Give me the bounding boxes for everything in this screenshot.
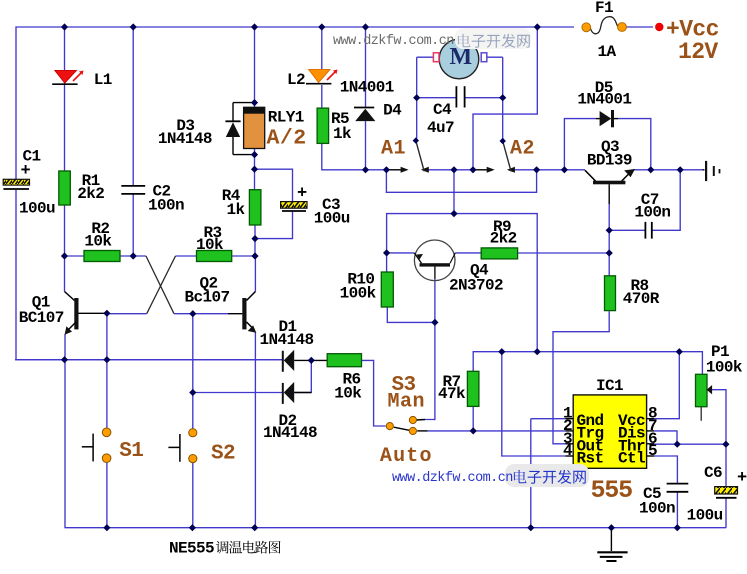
resistor R10 (381, 272, 393, 307)
wire Q3 base down (608, 184, 610, 204)
wire A2 fixed contact line (473, 169, 489, 171)
wire S3 arm (394, 427, 410, 430)
wire R6 right to S3 (362, 360, 386, 426)
wire motor left terminal column (416, 57, 418, 140)
capacitor C3 (281, 202, 307, 209)
svg-text:IC1: IC1 (596, 377, 623, 395)
wire Man stub (416, 419, 425, 422)
svg-text:BC107: BC107 (19, 309, 64, 327)
svg-text:100u: 100u (19, 200, 55, 218)
svg-text:470R: 470R (623, 290, 660, 308)
relay RLY1 (244, 107, 265, 148)
wire A2 top feed from +Vcc rail (473, 27, 537, 170)
svg-text:RLY1: RLY1 (268, 109, 304, 127)
transistor Q2 Bc107 (242, 298, 246, 329)
wire pin5 Ctl to C5 (654, 456, 677, 483)
wire pin6 Thr row (654, 443, 726, 445)
wire S2 column (192, 314, 194, 429)
switch A1 (401, 167, 409, 173)
svg-text:2k2: 2k2 (490, 230, 517, 248)
capacitor C4 (455, 86, 457, 107)
svg-text:1N4148: 1N4148 (158, 130, 212, 148)
resistor R2 (84, 251, 120, 262)
svg-text:10k: 10k (84, 233, 112, 251)
capacitor C2 (121, 185, 145, 187)
svg-text:C6: C6 (704, 464, 722, 482)
svg-text:100k: 100k (340, 285, 377, 303)
svg-text:+: + (21, 162, 31, 181)
resistor R1 (59, 171, 71, 205)
wire D5 loop (564, 119, 596, 170)
wire pin8 Vcc up (654, 352, 679, 419)
wire cross-couple diagonal to Q1 base (147, 256, 176, 314)
wire D2 row to S2 column (193, 392, 283, 394)
LED L1 (55, 71, 76, 84)
svg-text:1N4148: 1N4148 (260, 331, 314, 349)
wire C7 left (609, 229, 645, 231)
svg-text:2k2: 2k2 (77, 185, 104, 203)
switch S3 (386, 423, 393, 430)
svg-text:100n: 100n (639, 500, 675, 518)
wire D2 anode line (294, 392, 311, 394)
wire node relay-bottom to C3 top (255, 169, 293, 201)
svg-text:12V: 12V (678, 39, 718, 65)
svg-text:1N4001: 1N4001 (577, 91, 631, 109)
svg-text:4: 4 (563, 442, 573, 460)
capacitor C1 (3, 179, 29, 185)
svg-text:4u7: 4u7 (427, 119, 454, 137)
diode D2 (282, 383, 284, 404)
wire L2/R5 column (321, 27, 323, 70)
watermark top (455, 28, 531, 49)
wire row y213 (453, 170, 455, 214)
svg-text:S1: S1 (119, 440, 143, 463)
motor M (439, 39, 479, 79)
svg-text:A1: A1 (381, 138, 406, 161)
svg-text:100k: 100k (706, 359, 743, 377)
wire C5 bottom (676, 492, 678, 528)
wire Q4 emitter feed (387, 252, 415, 254)
svg-text:L1: L1 (94, 71, 112, 89)
capacitor C5 (667, 483, 689, 485)
wire D1/D2 junction vertical (294, 360, 311, 392)
wire A1 left contact line (386, 169, 401, 171)
wire motor right terminal column (487, 56, 503, 58)
node A1 arm pivot (413, 137, 419, 143)
pushbutton S2 (179, 434, 181, 462)
wire C2 column (132, 27, 134, 185)
svg-text:10k: 10k (334, 385, 362, 403)
svg-text:1k: 1k (333, 125, 352, 143)
wire D1 row left (15, 359, 283, 361)
wire +V row y351.7 (473, 352, 702, 375)
wire relay bottom to R4 (254, 148, 256, 190)
svg-text:Ctl: Ctl (618, 450, 645, 468)
wire R4 bottom (254, 225, 256, 256)
wire R10 bottom to Q4 collector (387, 307, 435, 322)
wire Q1 collector/emitter column (64, 256, 66, 292)
wire C4 right (465, 97, 503, 99)
ground bottom (597, 551, 627, 553)
capacitor C7 (644, 222, 646, 239)
switch A2 (487, 167, 495, 173)
diode D5 (600, 111, 612, 126)
wire R5 bottom to A1 row (322, 143, 387, 169)
svg-text:NE555: NE555 (169, 540, 214, 558)
wire Q3 emitter side to ground (633, 169, 703, 171)
wire R9 right to Q3 base column (518, 252, 610, 254)
resistor R4 (249, 190, 261, 225)
svg-text:Bc107: Bc107 (185, 289, 230, 307)
wire Q3 base to R8 (608, 230, 610, 275)
svg-text:D4: D4 (383, 102, 402, 120)
pushbutton S1 (92, 434, 94, 462)
junction dots (61, 23, 68, 30)
svg-text:BD139: BD139 (587, 152, 632, 170)
diode D1 (282, 351, 284, 372)
wire R2 row (65, 255, 85, 257)
wire D1 anode to junction and R6 (294, 359, 327, 361)
wire C4 left (417, 97, 457, 99)
wire P1 bottom stub (700, 407, 702, 421)
ground right (702, 169, 704, 171)
wire R8 bottom to pin3 Out (553, 311, 609, 444)
wire A1-A2 mid segment (427, 169, 473, 171)
wire Q3 collector side (564, 169, 585, 171)
svg-text:Auto: Auto (380, 445, 433, 468)
svg-text:+: + (297, 185, 307, 204)
resistor R9 (481, 248, 517, 259)
wire Q2 collector (254, 256, 256, 292)
diode D4 (354, 107, 374, 109)
svg-text:1A: 1A (598, 43, 617, 61)
svg-text:C4: C4 (433, 101, 452, 119)
wire C3 bottom to R4 bottom (255, 211, 293, 239)
fuse F1 (627, 26, 654, 28)
svg-text:100u: 100u (314, 210, 350, 228)
wire pin1 Gnd down to rail (531, 418, 566, 420)
svg-text:A/2: A/2 (267, 127, 307, 151)
svg-text:1N4148: 1N4148 (263, 424, 317, 442)
node A2 arm pivot (500, 138, 506, 144)
wire left rail down to mid horizontal (16, 190, 283, 360)
potentiometer P1 (696, 374, 708, 406)
svg-text:2N3702: 2N3702 (449, 277, 503, 295)
wire Q2 emitter down (254, 332, 256, 528)
wire R10 top (386, 253, 388, 272)
wire bypass U below switches (386, 170, 536, 193)
wire pin4 Rst feed (502, 352, 566, 456)
wire bottom ground rail (65, 527, 727, 529)
LED L2 (309, 70, 330, 83)
watermark bottom (505, 464, 589, 487)
transistor Q3 BD139 (593, 181, 625, 185)
svg-text:L2: L2 (287, 71, 305, 89)
wire R7 bottom (472, 406, 474, 431)
resistor R8 (605, 276, 616, 311)
wire C6 (725, 444, 727, 486)
svg-text:Man: Man (388, 390, 426, 413)
svg-text:A2: A2 (510, 138, 535, 161)
svg-text:10k: 10k (196, 236, 224, 254)
diode D3 (233, 102, 255, 104)
wire ground stem bottom (610, 528, 612, 551)
+Vcc terminal (655, 23, 663, 31)
wire cross-couple diagonal to Q2 base (146, 256, 174, 314)
wire pin7 Dis down (654, 431, 677, 444)
wire L1/R1 column (64, 27, 66, 171)
svg-text:www.dzkfw.com.cn: www.dzkfw.com.cn (333, 34, 454, 49)
svg-text:5: 5 (648, 442, 657, 460)
svg-text:100u: 100u (687, 507, 723, 525)
svg-text:S2: S2 (211, 443, 235, 466)
resistor R7 (467, 371, 479, 406)
wire Q4 base to R9 (455, 252, 481, 254)
wire D4 column (365, 27, 367, 107)
wire S1 column (106, 313, 108, 428)
resistor R6 (327, 354, 361, 367)
wire relay column from top rail (254, 27, 256, 107)
IC1 555 (573, 395, 646, 468)
capacitor C6 (715, 487, 738, 494)
svg-text:1k: 1k (227, 201, 246, 219)
resistor R3 (197, 251, 232, 262)
resistor R5 (317, 108, 329, 143)
wire P1 wiper to C6 (712, 390, 727, 445)
svg-text:47k: 47k (438, 385, 466, 403)
svg-text:www.dzkfw.com.cn: www.dzkfw.com.cn (392, 471, 513, 486)
wire A2 right segment (513, 169, 565, 171)
transistor Q1 BC107 (74, 298, 78, 329)
wire S3 auto contact to Trg row (417, 430, 427, 432)
svg-text:100n: 100n (148, 197, 184, 215)
svg-text:555: 555 (591, 476, 633, 505)
wire Q4 collector down to S3 Man (434, 279, 436, 323)
wire top +Vcc rail (16, 27, 574, 179)
transistor Q4 2N3702 (414, 240, 455, 281)
svg-text:+: + (737, 469, 747, 488)
wire R3 row (176, 255, 197, 257)
svg-text:100n: 100n (634, 204, 670, 222)
wire C7 right up (652, 170, 680, 231)
svg-text:1N4001: 1N4001 (340, 79, 394, 97)
svg-text:F1: F1 (595, 0, 613, 17)
